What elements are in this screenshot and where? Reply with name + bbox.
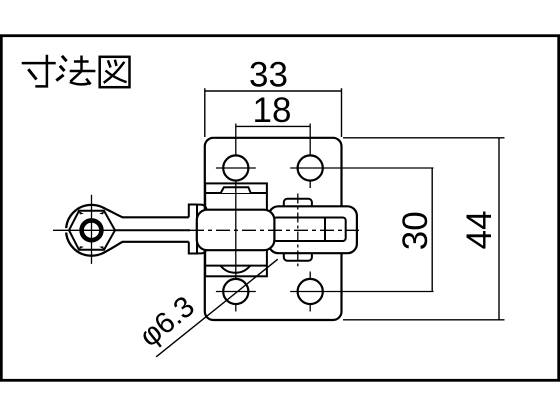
dim 18 line [236, 125, 310, 127]
knob hexagon [69, 211, 115, 250]
bolt hole top-left [223, 155, 248, 180]
right column centerline top [309, 124, 311, 189]
knob outer circle [66, 205, 117, 256]
trapezoid pad on upper bracket [221, 187, 251, 193]
clevis top bump (spindle) [284, 199, 312, 207]
dim 44 line [498, 138, 500, 320]
bolt hole bottom-right [298, 279, 323, 304]
arm bottom edge [104, 242, 189, 253]
svg-text:30: 30 [396, 211, 435, 250]
dim 33 line [205, 90, 342, 92]
washer flange [189, 205, 197, 254]
knob thick ring [82, 220, 102, 240]
main horizontal centerline [190, 229, 359, 231]
base plate [205, 138, 342, 320]
knob notch (left gap) [64, 228, 69, 232]
U-bar outer [269, 206, 357, 253]
handle arm fill [104, 208, 194, 253]
title kanji ZU (図) [100, 57, 130, 87]
title kanji HOU (法) [56, 56, 95, 85]
arm top edge [104, 208, 189, 217]
arc dome under lower bracket [221, 266, 251, 273]
bracket upper inner line [205, 192, 267, 194]
leader line phi6.3 [156, 259, 278, 357]
bolt hole top-right [298, 155, 323, 180]
mounting body bracket (vertical plate edge view) [205, 183, 267, 276]
dim 44 ext top [343, 137, 505, 139]
pivot pill housing [197, 210, 275, 251]
right column centerline bottom [309, 272, 311, 312]
svg-text:18: 18 [253, 91, 292, 130]
dim 30 line [431, 168, 433, 292]
bolt hole bottom-left [223, 279, 248, 304]
arm mid line [114, 229, 190, 231]
flange top step [197, 205, 207, 213]
knob crosshair [53, 229, 119, 231]
clevis bottom bump [284, 253, 312, 261]
flange bottom step [197, 246, 207, 254]
dim 44 ext bottom [343, 319, 505, 321]
svg-text:33: 33 [249, 55, 288, 94]
left column centerline / extension [235, 124, 237, 312]
svg-text:44: 44 [460, 210, 499, 249]
U-bar inner slot [274, 218, 346, 242]
clevis vertical centerline [297, 194, 299, 267]
slot divider [324, 218, 326, 242]
dim 33 ext right [341, 88, 343, 137]
hex chamfer marks [79, 211, 104, 249]
dim 33 ext left [204, 88, 206, 137]
bracket lower inner line [205, 265, 267, 267]
title kanji SUN (寸) [22, 55, 56, 87]
